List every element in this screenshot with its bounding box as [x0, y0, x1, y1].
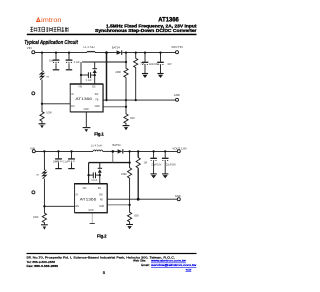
terminal VOUT (Fig.1): [176, 51, 179, 54]
svg-text:0.1uF: 0.1uF: [91, 180, 97, 182]
value labels Fig.1: [46, 45, 172, 120]
svg-text:5: 5: [103, 270, 106, 275]
wire: R1 to FB line (Fig.2): [129, 180, 131, 205]
svg-text:GND: GND: [99, 206, 104, 208]
svg-text:EN: EN: [71, 106, 75, 108]
switch S1 (ON/OFF): [40, 71, 44, 80]
terminal ON/OFF (Fig.1): [32, 92, 35, 95]
resistor R2 (feedback lower): [124, 107, 128, 125]
resistor R1 (feedback upper) (Fig.2): [128, 163, 132, 180]
node: bootstrap junctions: [80, 74, 82, 76]
wire: rail D1 to VOUT terminal: [124, 150, 178, 152]
node: GND line junctions: [105, 99, 107, 101]
IC U1 pin labels (Fig.2): [76, 188, 105, 212]
resistor R1 (feedback upper): [124, 62, 128, 78]
svg-text:0.1uF: 0.1uF: [74, 62, 80, 64]
svg-text:VIN: VIN: [30, 146, 35, 150]
svg-text:Web Site:: Web Site:: [133, 259, 146, 263]
wire: bootstrap link right (Fig.2): [96, 174, 100, 176]
svg-text:Synchronous Step-Down DC/DC Co: Synchronous Step-Down DC/DC Converter: [95, 28, 197, 33]
svg-text:GND: GND: [95, 106, 100, 108]
svg-text:BAT54: BAT54: [113, 143, 122, 147]
wire: GND line (IC to GND terminal): [103, 99, 176, 101]
capacitor C5 bootstrap (Fig.2): [93, 172, 95, 178]
resistor R4 (rail to GND line) (Fig.2): [137, 151, 139, 157]
ground: below R2 (Fig.2): [126, 224, 133, 226]
node: GND line junction (Fig.2): [137, 198, 140, 201]
wire: BS net horizontal (Fig.2): [89, 162, 130, 164]
terminal GND (Fig.2): [177, 198, 180, 201]
node: FB junction: [125, 106, 127, 108]
wire: IC GND pin to ground (Fig.2): [91, 213, 93, 223]
logo Aimtron: [36, 17, 62, 24]
svg-text:Fig.2: Fig.2: [97, 233, 107, 238]
wire: SW node vertical: [106, 53, 108, 101]
ground: below IC U1: [83, 127, 91, 129]
switch S1 (ON/OFF) (Fig.2): [43, 170, 47, 179]
diode D1 (Fig.2): [118, 149, 123, 153]
svg-text:BS: BS: [92, 87, 96, 89]
wire: input rail VIN (Fig.1): [35, 52, 87, 54]
wire: VOUT node drop to R1 (Fig.2): [129, 151, 131, 162]
node: bootstrap junctions (Fig.2): [87, 174, 89, 176]
logo Chinese company name (glyph strokes): [30, 27, 68, 32]
inductor L1 (Fig.1): [87, 51, 95, 52]
svg-text:L1 4.7uH: L1 4.7uH: [84, 45, 95, 49]
resistor R3 (EN pulldown): [40, 104, 44, 124]
wire: EN branch vertical upper: [41, 53, 43, 71]
wire: EN to IC pin: [42, 103, 70, 105]
svg-text:1M: 1M: [144, 162, 147, 165]
wire: VIN pin riser: [80, 62, 82, 84]
wire: FB line (IC to divider) (Fig.2): [107, 204, 129, 206]
diode D1 (Fig.1): [117, 50, 122, 54]
svg-text:22uF/16V: 22uF/16V: [166, 165, 176, 167]
svg-text:249K: 249K: [121, 173, 127, 176]
footer rule: [27, 253, 197, 254]
svg-text:www.aimtron.com.tw: www.aimtron.com.tw: [151, 259, 187, 263]
ground: below IC U1 (Fig.2): [90, 223, 95, 225]
node: EN junction: [41, 103, 43, 105]
inductor L1 (Fig.2): [93, 150, 103, 151]
value labels Fig.2: [33, 143, 176, 219]
node: FB junction (Fig.2): [128, 204, 130, 206]
svg-text:100K: 100K: [33, 216, 39, 219]
wire: EN to IC pin (Fig.2): [44, 205, 74, 207]
ground: below R2: [123, 125, 130, 127]
terminal GND (Fig.1): [176, 98, 179, 101]
svg-text:0.1uF: 0.1uF: [63, 161, 69, 163]
svg-text:EN: EN: [76, 206, 80, 208]
capacitor C2 input (Fig.2): [71, 151, 73, 168]
wire: bootstrap link left (Fig.2): [89, 174, 93, 176]
resistor R3 (EN pulldown) (Fig.2): [42, 206, 46, 224]
svg-text:IN: IN: [71, 94, 74, 96]
wire: EN branch vertical lower: [41, 80, 43, 104]
capacitor C1 input (Fig.2): [58, 151, 60, 168]
svg-text:22uF/16V: 22uF/16V: [151, 165, 161, 167]
svg-text:IN: IN: [76, 195, 79, 197]
svg-text:BAT54: BAT54: [112, 45, 121, 49]
svg-text:VIN: VIN: [78, 87, 82, 89]
svg-text:100K: 100K: [46, 111, 52, 114]
diode D2 bootstrap (Fig.2): [99, 163, 101, 184]
svg-text:Email:: Email:: [141, 263, 150, 267]
wire: VIN pin riser (Fig.2): [88, 163, 90, 184]
terminal ON/OFF (Fig.2): [32, 191, 35, 194]
svg-text:ON: ON: [46, 76, 50, 78]
svg-text:0.1uF: 0.1uF: [86, 80, 92, 82]
svg-text:VIN: VIN: [27, 46, 32, 50]
IC U1 (Fig.2): [74, 184, 107, 213]
wire: input rail VIN (Fig.2): [35, 150, 93, 152]
svg-text:w.tw: w.tw: [186, 267, 192, 271]
svg-text:VOUT 5V: VOUT 5V: [171, 45, 183, 49]
wire: GND line (IC to GND terminal) (Fig.2): [107, 198, 177, 200]
svg-text:GND: GND: [175, 194, 181, 198]
ground: below R3: [39, 123, 46, 125]
node: BS net to R1 junction: [125, 61, 127, 63]
svg-text:VIN: VIN: [83, 188, 87, 190]
svg-text:L1 4.7uH: L1 4.7uH: [91, 144, 102, 148]
svg-text:imtron: imtron: [41, 17, 62, 24]
capacitor C4 output (Fig.2): [164, 151, 166, 173]
terminal VIN (Fig.1): [32, 51, 35, 54]
svg-text:VOUT 1.8V: VOUT 1.8V: [172, 147, 186, 151]
wire: VOUT node drop to R1: [125, 53, 127, 62]
svg-text:82K: 82K: [134, 214, 139, 217]
resistor R4 (rail to SW/GND line): [134, 53, 138, 68]
node: junction dots rail Fig.2: [43, 150, 166, 207]
wire: rail L1 to D1: [95, 52, 117, 54]
diode D2 bootstrap: [94, 62, 96, 84]
svg-text:82K: 82K: [130, 117, 135, 120]
svg-text:249K: 249K: [115, 71, 121, 74]
capacitor C1 input (Fig.1): [55, 53, 57, 70]
svg-text:FB: FB: [100, 200, 103, 202]
terminal VIN (Fig.2): [32, 150, 35, 153]
wire: EN branch vertical lower (Fig.2): [43, 179, 45, 207]
wire: bootstrap link right: [91, 74, 95, 76]
svg-text:ON: ON: [36, 175, 40, 177]
wire: R1 to FB line: [125, 78, 127, 107]
svg-text:BS: BS: [98, 188, 102, 190]
terminal VOUT (Fig.2): [177, 150, 180, 153]
wire: rail D1 to VOUT terminal: [122, 52, 175, 54]
capacitor C5 bootstrap: [88, 72, 90, 78]
capacitor C3 output (Fig.1): [144, 53, 146, 74]
capacitor C3 output (Fig.2): [153, 151, 155, 173]
wire: EN branch vertical upper (Fig.2): [43, 151, 45, 170]
svg-text:22uF/16V: 22uF/16V: [149, 64, 159, 66]
IC U1 (Fig.1): [70, 84, 104, 112]
node: junction dots rail Fig.1: [41, 51, 162, 108]
svg-text:FB: FB: [96, 100, 99, 102]
wire: FB line (IC to divider): [103, 106, 126, 108]
svg-text:GND: GND: [174, 93, 180, 97]
capacitor C2 input (Fig.1): [68, 53, 70, 70]
wire: R4 lower lead: [135, 67, 137, 100]
capacitor C4 output (Fig.1): [160, 53, 162, 74]
svg-text:Typical Application Circuit: Typical Application Circuit: [24, 40, 78, 46]
svg-text:Fax: 886-3-666-2686: Fax: 886-3-666-2686: [27, 264, 59, 268]
svg-text:10uF: 10uF: [53, 161, 59, 163]
node: BS net to R1 junction (Fig.2): [128, 161, 130, 163]
svg-text:10uF: 10uF: [49, 61, 55, 63]
wire: rail L1 to D1: [103, 150, 118, 152]
IC U1 pin labels: [71, 87, 100, 111]
svg-text:GND: GND: [84, 109, 89, 111]
wire: bootstrap link left: [81, 74, 88, 76]
svg-text:AT1366: AT1366: [75, 97, 92, 101]
svg-text:Fig.1: Fig.1: [94, 131, 104, 136]
resistor R2 (feedback lower) (Fig.2): [128, 205, 132, 224]
svg-text:GND: GND: [88, 210, 93, 212]
svg-text:Tel: 886-3-666-2688: Tel: 886-3-666-2688: [27, 260, 56, 264]
svg-text:75K: 75K: [140, 63, 145, 66]
wire: IC GND pin to ground: [85, 112, 87, 127]
node: EN junction (Fig.2): [43, 205, 45, 207]
wire: BS net horizontal: [82, 61, 126, 63]
wire: R4 lower lead (Fig.2): [137, 169, 139, 200]
svg-text:16V: 16V: [167, 64, 172, 66]
svg-text:AT1366: AT1366: [80, 197, 97, 201]
wire: SW node vertical (Fig.2): [112, 151, 114, 162]
ground: below R3 (Fig.2): [41, 224, 48, 226]
header rule: [27, 34, 197, 36]
